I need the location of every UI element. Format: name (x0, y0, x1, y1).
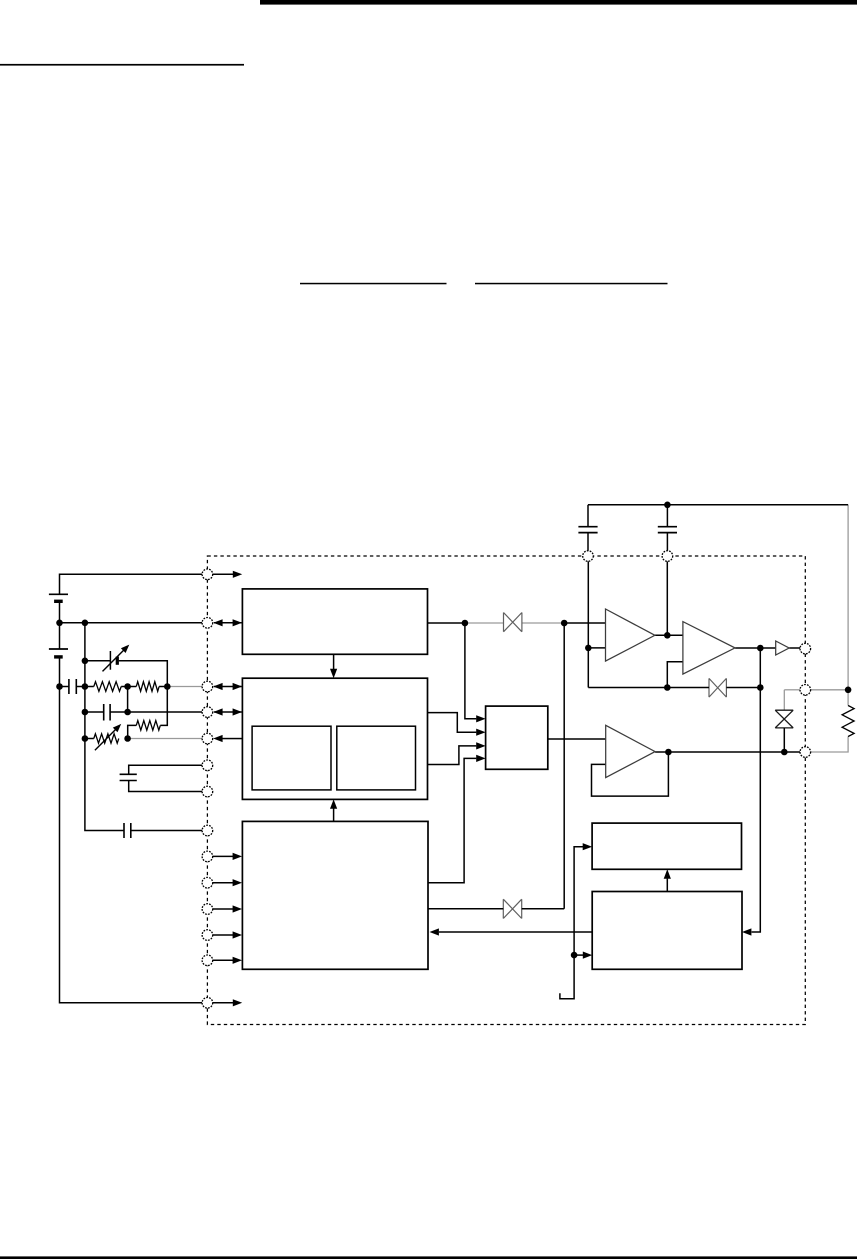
wire: U3 up arrow stem (333, 808, 335, 821)
wire: oscillator node to op-amp A1 input (564, 622, 605, 624)
node: R2 right junction (164, 683, 171, 690)
wire: pin5 arrow tail (222, 738, 242, 740)
pin 4 (202, 707, 213, 718)
pin T1 (top) (583, 551, 594, 562)
arrow: pin13 into U3 (233, 957, 242, 964)
block U2 (mixer/IF section) (242, 678, 427, 799)
block U4 (mixer square) (486, 706, 548, 769)
node: left bus pin3 (82, 683, 89, 690)
resistor R5 (right feedback, vertical zigzag) (842, 706, 854, 737)
arrow: pin14 into IC (233, 999, 242, 1006)
node: A3 output feedback (665, 749, 672, 756)
capacitor C3 (pin4 row plates) (104, 704, 110, 721)
wire: pin3 net grey segment to pin circle (167, 686, 202, 688)
wire: battery B2 bottom to pin3 node and down to pin14 row (60, 658, 203, 1003)
wire: U1 output to oscillator node (428, 622, 465, 624)
wire: pin10 arrow shaft (213, 882, 235, 884)
wire: S2 to vertical (522, 908, 565, 910)
capacitor C8 plates (658, 527, 677, 533)
capacitor C7 plates (578, 527, 597, 533)
top external capacitors and rail (588, 505, 848, 551)
capacitor C7 leads (587, 505, 589, 527)
arrow: pin3 bidirectional left (213, 683, 222, 690)
variable resistor RV1 (94, 734, 119, 743)
capacitor C6 (pin8 row plates) (124, 823, 131, 838)
node: pin5 row junction (124, 735, 131, 742)
black wires: external left network (60, 574, 203, 1003)
wire: buffer output to pin (789, 647, 800, 649)
wire: pin12 arrow shaft (213, 934, 235, 936)
wire: pin4 row with capacitor C3 (85, 711, 104, 713)
varactor D1 (vertical bowtie with bars) (775, 710, 793, 728)
pin 14 (202, 998, 213, 1009)
pin 7 (202, 786, 213, 797)
battery B1 (short thick plate) (54, 600, 63, 603)
arrow: pin11 into U3 (233, 905, 242, 912)
wire: oscillator net grey segment right of switch S1 (522, 622, 564, 624)
op-amp A1 (606, 609, 655, 661)
wire: U6 to U5 arrow stem (666, 879, 668, 892)
wire: A3 output row (655, 751, 800, 753)
arrow: control into U5 (583, 843, 592, 850)
wire: control net vertical (560, 847, 583, 999)
wire: pin3 arrow shaft (214, 686, 242, 688)
arrow: pin9 into U3 (233, 853, 242, 860)
wire: pin4 arrow shaft (214, 711, 242, 713)
node: pin3/battery (56, 683, 63, 690)
arrowheads (213, 571, 751, 1007)
node: A1 lower input (585, 645, 592, 652)
switch S2 (bowtie on FLL line) (503, 899, 521, 918)
node: feedback row (664, 684, 671, 691)
wire: battery stack mid segment (59, 603, 61, 649)
wire: pin3 row segments with capacitor C2 (60, 686, 69, 688)
arrow: into U6 right edge (742, 928, 751, 935)
wire: right feedback drop from top rail (847, 505, 849, 690)
wire: pin2 arrow shaft (214, 622, 242, 624)
wire: pin2 row (60, 622, 203, 624)
wire: U2 to mixer input 2 (428, 713, 477, 733)
inner block U2a (252, 726, 331, 790)
wire: oscillator net grey segment left of switch S1 (465, 622, 504, 624)
arrow: mixer input 2 (476, 729, 485, 736)
arrow: mixer input 3 (476, 742, 485, 749)
node: A1 output (664, 632, 671, 639)
switch S3 (bowtie on feedback line) (709, 678, 726, 697)
arrow: pin5 outward left (213, 735, 222, 742)
node: left bus pin4 (82, 709, 89, 716)
arrow: into U3 right edge (430, 928, 439, 935)
wire: A2 lower input step (667, 662, 683, 688)
variable capacitor CV1 plates (109, 651, 111, 670)
arrow: U3 to U2 (330, 799, 337, 808)
node: pin2/battery (56, 620, 63, 627)
wire: left bus vertical x=84.9 down to pin8 capacitor (85, 623, 124, 831)
block U5 (upper right small) (592, 823, 741, 869)
pin 6 (202, 760, 213, 771)
pin 3 (202, 681, 213, 692)
variable resistor RV1 arrow (95, 728, 117, 750)
arrow: pin12 into U3 (233, 931, 242, 938)
block U6 (lower right) (592, 892, 742, 970)
pin 1 (202, 569, 213, 580)
IC package dashed boundary (207, 556, 805, 1025)
wire: node down to mixer input 1 (465, 623, 476, 719)
capacitor C2 (pin3 row plates) (69, 679, 76, 694)
pin B1 (right, buffer out) (800, 643, 811, 654)
arrow: pin10 into U3 (233, 879, 242, 886)
wire: pin5 net grey segment to pin circle (128, 738, 203, 740)
pin 13 (202, 955, 213, 966)
resistor R2 (136, 682, 159, 692)
pin B2 (right, varactor) (800, 685, 811, 696)
wire: FLL line U3 to S2 (428, 908, 503, 910)
pin 10 (202, 877, 213, 888)
node: top rail C8 (664, 502, 671, 509)
wire: pin B2 to right feedback node (811, 689, 849, 691)
battery B2 (short thick plate) (54, 655, 63, 658)
arrow: U6 to U5 (664, 869, 671, 878)
wire: varactor D1 bottom lead (783, 728, 785, 752)
wire: pin13 arrow shaft (213, 959, 235, 961)
page footer rule (0, 1256, 857, 1259)
wire: S3 to output node (726, 687, 760, 689)
pin 5 (202, 733, 213, 744)
node: left bus pin5 (82, 735, 89, 742)
arrow: pin2 bidirectional right (233, 619, 242, 626)
wire: top pin 2 into A1 output node (666, 561, 668, 635)
wire: output node down to U6 with arrow (752, 648, 761, 932)
wire: varcap branch row (85, 660, 111, 662)
wire: pin14 arrow shaft (213, 1002, 235, 1004)
wire: oscillator node down to FLL switch line (563, 623, 565, 909)
wire: pin9 arrow shaft (213, 855, 235, 857)
battery B2 (long plate) (49, 648, 68, 650)
wire: A1 output to A2 input (655, 634, 683, 636)
wire: feedback row to S3 (588, 687, 709, 689)
block U1 (RF input stage) (242, 589, 427, 654)
op-amp A2 (683, 622, 735, 675)
resistor R1 (94, 682, 121, 692)
wire: mixer output to amp A3 (548, 738, 606, 740)
wire: top rail (588, 504, 848, 506)
wire: A2 output row (735, 647, 776, 649)
wire: pin8 row capacitor C6 to pin circle (131, 830, 202, 832)
wire: varcap branch to right corner down to pin3 row (119, 661, 168, 687)
arrow: pin4 bidirectional left (213, 708, 222, 715)
node: varactor to output (781, 749, 788, 756)
battery B1 (long plate) (49, 593, 68, 595)
wire: top pin 1 into amp A1 upper input (587, 561, 589, 687)
pin B3 (right, A3 out) (800, 747, 811, 758)
pin T2 (top) (662, 551, 673, 562)
grey wires group (128, 505, 849, 752)
functional blocks (242, 589, 742, 969)
block U3 (control logic) (242, 821, 428, 969)
wire: control net branch to U6 (574, 954, 583, 956)
wire: R3 left lead down to pin5 row (128, 725, 137, 738)
arrow shaft lines at pins (213, 574, 242, 1003)
arrow: pin2 bidirectional left (213, 619, 222, 626)
wire: pin11 arrow shaft (213, 908, 235, 910)
buffer A4 (776, 641, 789, 655)
wire: U1 down arrow stem (333, 654, 335, 669)
node: feedback/output vertical (757, 684, 764, 691)
wire: A1 lower input stub (588, 647, 605, 649)
arrow: mixer input 4 (476, 755, 485, 762)
wire: resistor R5 bottom lead to output line (811, 737, 849, 753)
pin 9 (202, 851, 213, 862)
node: R1-R2 junction (124, 683, 131, 690)
node: oscillator FLL branch (561, 620, 568, 627)
arrow: pin1 into IC (233, 571, 242, 578)
resistor R3 (136, 721, 160, 731)
page header black bar (260, 0, 857, 5)
wire: A3 feedback loop (592, 752, 669, 796)
wire: x=127.6 vertical pin3 to pin4 row (127, 687, 129, 713)
op-amp A3 (606, 725, 655, 777)
arrow: control into U6 (583, 952, 592, 959)
capacitor C5 (pin6-7 plates) (120, 774, 137, 780)
variable capacitor CV1 arrow (103, 649, 126, 672)
pin 8 (202, 825, 213, 836)
wire: U6 to mixer input 4 (428, 758, 476, 882)
arrow: pin4 bidirectional right (233, 708, 242, 715)
wire: U6 left row to U3 arrow (439, 931, 592, 933)
wire: resistor R5 top lead (847, 690, 849, 706)
wire: x=167.3 vertical pin3 row to R3 (160, 687, 167, 726)
arrow: U1 to U2 (330, 669, 337, 678)
node: left bus varcap branch (82, 658, 89, 665)
capacitor C8 leads (666, 505, 668, 527)
arrow: pin3 bidirectional right (233, 683, 242, 690)
switch S1 (bowtie on oscillator line) (504, 613, 522, 632)
wire: pin1 row from left rail (60, 574, 203, 594)
pin 11 (202, 904, 213, 915)
node: A2 output (757, 645, 764, 652)
inner block U2b (337, 726, 416, 790)
internal wires (334, 561, 800, 999)
pin 12 (202, 930, 213, 941)
wire: pin5 row left lead (85, 738, 94, 740)
node: left bus pin2 (82, 620, 89, 627)
wire: U2 to mixer input 3 (428, 746, 477, 765)
wire: pin1 arrow shaft (213, 573, 235, 575)
node: oscillator branch (462, 620, 469, 627)
arrow: mixer input 1 (476, 715, 485, 722)
wire: node at pin B2 horizontal grey (784, 689, 800, 691)
wire: varactor D1 top lead (783, 690, 785, 710)
node: pin4 row junction (124, 709, 131, 716)
heading underline 1 (300, 283, 447, 285)
pin 2 (202, 618, 213, 629)
node: right feedback (845, 687, 852, 694)
wire: pin6 pin7 loop with capacitor C5 (129, 765, 202, 774)
pin circles (202, 551, 811, 1008)
page header left rule (0, 64, 244, 66)
heading underline 2 (475, 283, 668, 285)
node: control branch (571, 952, 578, 959)
